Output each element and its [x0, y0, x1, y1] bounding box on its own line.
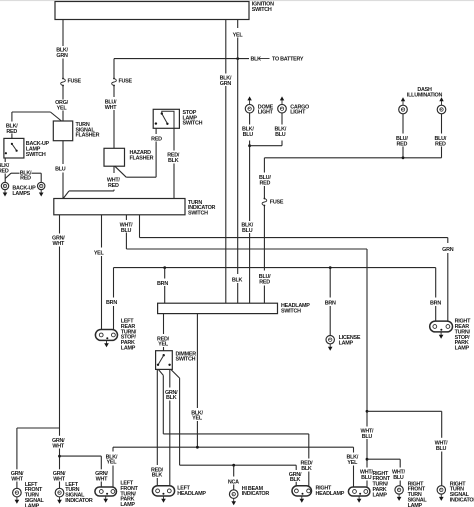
right front turn/park lamp: [348, 487, 370, 496]
svg-text:SWITCH: SWITCH: [252, 7, 272, 13]
left rear turn/stop/park lamp: [95, 330, 117, 341]
wire GRN/WHT branch to left front turn lamp: [17, 428, 60, 488]
label back-up lamp switch: [26, 141, 50, 158]
junction dot hi beam: [232, 464, 235, 467]
svg-text:GRN: GRN: [220, 81, 232, 87]
label BLK/GRN center: [220, 75, 232, 86]
svg-text:LAMP: LAMP: [339, 340, 354, 346]
label BLK/BLU cargo: [275, 126, 287, 137]
label turn signal flasher: [76, 122, 100, 139]
label WHT/RED: [107, 177, 121, 188]
label right turn signal indicator: [450, 481, 474, 503]
label RED/BLK right: [300, 461, 313, 472]
junction dot BRN headlamp switch: [163, 266, 166, 269]
wire WHT/RED (hazard to turn indicator switch): [63, 166, 114, 198]
svg-text:FUSE: FUSE: [119, 79, 133, 85]
wire GRN (to right rear lamp): [140, 215, 448, 321]
label dimmer switch: [176, 351, 197, 362]
label GRN/WHT front lamp: [11, 471, 24, 482]
label right headlamp: [316, 486, 345, 497]
wire GRN/BLK to left headlamp: [169, 369, 171, 485]
svg-text:FLASHER: FLASHER: [130, 156, 154, 162]
wire WHT/BLU to right turn indicator: [367, 411, 442, 485]
label dome light: [258, 104, 274, 115]
label right front turn/park lamp: [373, 471, 391, 499]
svg-text:LAMPS: LAMPS: [12, 191, 30, 197]
svg-text:LAMP: LAMP: [373, 492, 388, 498]
svg-text:BLU: BLU: [243, 132, 254, 138]
junction dot dome/cargo: [248, 144, 251, 147]
ground hi beam indicator: [231, 498, 236, 505]
svg-text:YEL: YEL: [57, 106, 68, 112]
ground right turn indicator: [439, 494, 444, 501]
svg-text:BRN: BRN: [106, 300, 117, 306]
dash lamp 2: [437, 105, 446, 114]
svg-text:BLK: BLK: [290, 477, 301, 483]
label cargo light: [290, 104, 309, 115]
svg-text:RED: RED: [259, 181, 270, 187]
label RED/YEL: [157, 336, 170, 347]
label headlamp switch: [281, 303, 310, 314]
svg-text:BLK: BLK: [301, 466, 312, 472]
label BLK/BLU dome lower: [241, 223, 253, 234]
label BLK/RED lamp1: [0, 163, 10, 174]
wire BLK/YEL (headlamp switch to park bus): [196, 314, 198, 448]
svg-text:YEL: YEL: [192, 416, 203, 422]
svg-text:FUSE: FUSE: [68, 79, 82, 85]
svg-text:RED: RED: [396, 141, 407, 147]
svg-text:BRN: BRN: [157, 281, 168, 287]
right front turn signal lamp: [395, 486, 403, 494]
wire RED/BLK to left headlamp: [156, 369, 158, 485]
label license lamp: [339, 335, 361, 346]
svg-text:SWITCH: SWITCH: [176, 357, 196, 363]
label GRN/WHT indicator: [53, 471, 66, 482]
label BLK — TO BATTERY: [251, 57, 304, 63]
label hazard flasher: [130, 150, 154, 161]
wire BLU/RED (dash bus to headlamp switch): [263, 158, 265, 303]
fuse F2: [112, 78, 117, 87]
wire BRN to left rear lamp: [113, 268, 115, 330]
label RED: [151, 136, 162, 142]
dash lamp 1 feed arrow: [401, 97, 405, 105]
hi beam indicator: [229, 490, 238, 499]
junction dot BRN license: [329, 266, 332, 269]
back-up lamp switch: [4, 138, 24, 158]
ground left turn indicator: [57, 497, 62, 504]
svg-text:LIGHT: LIGHT: [258, 110, 274, 116]
svg-text:BLK: BLK: [152, 473, 163, 479]
fuse F1: [61, 78, 66, 87]
svg-text:BLK: BLK: [232, 278, 243, 284]
wire RED/YEL (to dimmer switch): [163, 314, 165, 351]
svg-text:RED: RED: [20, 176, 31, 182]
svg-text:SWITCH: SWITCH: [26, 152, 46, 158]
label left front turn/park lamp: [120, 481, 138, 507]
wire BLK/GRN from ignition (left): [62, 20, 64, 122]
svg-text:RED: RED: [6, 129, 17, 135]
cargo light feed arrow: [280, 96, 284, 104]
wire BLK/YEL park line: [113, 446, 354, 448]
wire hazard to stop lamp switch: [115, 128, 156, 177]
svg-text:SWITCH: SWITCH: [183, 121, 203, 127]
back-up lamp right: [38, 182, 45, 189]
label BLU/RED lower: [259, 274, 271, 285]
wire BRN to license lamp: [329, 268, 331, 336]
label BRN license: [325, 300, 336, 306]
svg-text:YEL: YEL: [233, 32, 244, 38]
cargo light: [278, 104, 287, 113]
label right rear lamp: [455, 319, 471, 352]
dome light feed arrow: [247, 96, 251, 104]
left turn signal indicator: [55, 488, 64, 497]
label left front turn signal lamp: [25, 482, 45, 507]
wire RED/BLK to right headlamp: [158, 369, 308, 486]
wire BLU/RED dash 1: [402, 114, 404, 158]
svg-text:INDICATOR: INDICATOR: [450, 498, 474, 504]
svg-text:LAMP: LAMP: [455, 346, 470, 352]
label BLK: [232, 278, 243, 284]
svg-text:BLU: BLU: [393, 475, 404, 481]
svg-text:BLU: BLU: [436, 446, 447, 452]
dash lamp 2 feed arrow: [439, 97, 443, 105]
svg-text:RED: RED: [259, 279, 270, 285]
label BLK/BLU dome upper: [242, 126, 254, 137]
turn indicator switch: [54, 199, 185, 215]
stop lamp switch: [153, 109, 179, 128]
label BRN center: [157, 281, 168, 287]
label hi beam indicator: [242, 486, 270, 497]
svg-text:LIGHT: LIGHT: [290, 110, 306, 116]
left front turn/park lamp: [95, 487, 117, 496]
label WHT/BLU right indicator: [435, 440, 449, 451]
label GRN/WHT mid: [52, 438, 65, 449]
svg-text:LAMP: LAMP: [408, 503, 423, 507]
wire BLU/WHT fuse branch: [113, 59, 115, 149]
wire dash illumination bus: [264, 157, 441, 159]
svg-text:TO BATTERY: TO BATTERY: [272, 57, 304, 63]
label dash illumination: [407, 87, 443, 98]
wire GRN/WHT branch to left park lamp: [60, 456, 102, 487]
label WHT/BLU top: [120, 223, 134, 234]
wire BRN bus: [114, 267, 436, 269]
wire BLK to battery: [114, 58, 249, 60]
wire BLK/RED to back-up lamps: [5, 158, 41, 182]
wire YEL/BLK (ignition to battery line to headlamp switch): [237, 20, 239, 304]
svg-text:NCA: NCA: [228, 479, 239, 485]
label BRN right: [430, 300, 441, 306]
wire RED/BLK (stop switch to turn indicator switch): [173, 128, 175, 198]
wire BLK/RED feed to back-up lamp switch: [12, 112, 62, 138]
svg-text:FLASHER: FLASHER: [76, 133, 100, 139]
wire BLU (flasher to turn indicator switch): [62, 141, 64, 199]
svg-text:RED: RED: [108, 183, 119, 189]
svg-text:WHT: WHT: [53, 477, 65, 483]
label NCA: [228, 479, 239, 485]
svg-text:WHT: WHT: [105, 105, 117, 111]
junction dot BLK/YEL: [196, 446, 199, 449]
wire BLK/BLU cargo: [250, 113, 282, 146]
ground back-up lamp right: [39, 190, 44, 197]
svg-text:LAMP: LAMP: [25, 503, 40, 507]
label GRN/BLK right: [289, 472, 302, 483]
wire GRN/WHT trunk: [59, 215, 61, 489]
label left headlamp: [177, 486, 206, 497]
right rear turn/stop/park lamp: [430, 321, 453, 332]
label BLK/YEL center: [191, 410, 203, 421]
label stop lamp switch: [183, 110, 203, 127]
svg-text:WHT: WHT: [53, 241, 65, 247]
wire BLK/YEL to right park lamp: [353, 447, 355, 487]
svg-text:YEL: YEL: [347, 460, 358, 466]
headlamp switch: [158, 303, 278, 313]
junction dot dash bus: [402, 156, 405, 159]
label WHT/BLU right front: [392, 470, 406, 481]
label BLK/RED lamp2: [20, 170, 32, 181]
label GRN/WHT top: [52, 236, 65, 247]
hazard flasher: [104, 148, 125, 166]
dimmer switch contacts: [157, 354, 171, 366]
svg-text:GRN: GRN: [56, 53, 68, 59]
label right front turn signal lamp: [408, 481, 428, 507]
label BLU: [55, 167, 66, 173]
left front turn signal lamp: [13, 488, 22, 497]
label GRN/WHT park lamp: [95, 471, 108, 482]
svg-text:WHT: WHT: [11, 477, 23, 483]
ground left rear lamp: [104, 340, 109, 347]
svg-text:SWITCH: SWITCH: [281, 309, 301, 315]
label GRN: [442, 247, 454, 253]
svg-text:WHT: WHT: [96, 477, 108, 483]
label BLU/RED upper: [259, 175, 271, 186]
junction dot GRN/WHT: [58, 455, 61, 458]
wire YEL (to left rear lamp): [101, 215, 103, 330]
label WHT/BLU mid: [361, 428, 375, 439]
label ORG/YEL: [55, 100, 69, 111]
ground right rear lamp: [439, 332, 444, 339]
svg-text:YEL: YEL: [158, 342, 169, 348]
svg-text:BRN: BRN: [325, 300, 336, 306]
ground right headlamp: [300, 496, 305, 503]
label BLK/GRN: [56, 48, 68, 59]
svg-text:RED: RED: [151, 136, 162, 142]
svg-text:BLU: BLU: [362, 434, 373, 440]
ground right front park lamp: [357, 496, 362, 503]
label ignition switch: [252, 1, 274, 12]
wire GRN/BLK to right headlamp: [171, 369, 296, 486]
label back-up lamps: [12, 186, 36, 197]
right headlamp: [292, 486, 312, 496]
svg-text:BRN: BRN: [430, 300, 441, 306]
ground back-up lamp left: [3, 190, 8, 197]
label BLU/RED dash 2: [435, 136, 447, 147]
label BLU/RED dash 1: [396, 136, 408, 147]
junction dot WHT/BLU upper: [366, 410, 369, 413]
svg-text:YEL: YEL: [94, 251, 105, 257]
ignition switch: [55, 2, 249, 20]
svg-text:HEADLAMP: HEADLAMP: [177, 491, 206, 497]
svg-text:INDICATOR: INDICATOR: [65, 498, 93, 504]
junction dot battery/YEL: [236, 57, 239, 60]
svg-text:BLU: BLU: [55, 167, 66, 173]
svg-text:BLU: BLU: [275, 132, 286, 138]
label RED/BLK: [167, 153, 180, 164]
dash lamp 1: [399, 105, 408, 114]
ground left front park lamp: [103, 496, 108, 503]
wire BLK/BLU dome: [249, 113, 251, 303]
dimmer switch: [156, 351, 173, 370]
svg-text:BLK: BLK: [251, 57, 262, 63]
svg-text:RED: RED: [435, 141, 446, 147]
wire WHT/BLU (to right side): [126, 215, 367, 487]
license lamp: [326, 336, 334, 344]
svg-text:INDICATOR: INDICATOR: [242, 491, 270, 497]
svg-text:RED: RED: [0, 169, 9, 175]
ground right front turn lamp: [397, 494, 402, 501]
turn signal flasher: [53, 121, 72, 141]
ground left headlamp: [161, 496, 166, 503]
svg-text:HEADLAMP: HEADLAMP: [316, 491, 345, 497]
dome light: [245, 104, 254, 113]
ground license lamp: [328, 344, 333, 351]
svg-text:LAMP: LAMP: [120, 502, 135, 507]
ground left front turn lamp: [15, 497, 20, 504]
svg-text:YEL: YEL: [107, 460, 118, 466]
label turn indicator switch: [188, 200, 216, 217]
stop lamp switch contacts: [155, 111, 174, 128]
left headlamp: [152, 486, 174, 496]
wire WHT/BLU to right front turn lamp: [367, 459, 400, 485]
label WHT/BLU at park lamp: [360, 470, 374, 481]
svg-text:WHT: WHT: [52, 444, 64, 450]
label BLK/YEL left: [106, 454, 118, 465]
svg-text:BLU: BLU: [361, 475, 372, 481]
label fuse F1: [68, 79, 82, 85]
right turn signal indicator: [437, 486, 445, 494]
wire BLK/YEL to left park lamp: [112, 447, 114, 487]
label BLU/WHT: [105, 99, 118, 110]
label YEL: [233, 32, 244, 38]
svg-text:SWITCH: SWITCH: [188, 211, 208, 217]
wire NCA to hi beam indicator: [233, 465, 235, 490]
wire BRN to headlamp switch: [164, 268, 166, 304]
label left rear lamp: [121, 319, 137, 352]
label GRN/BLK left: [165, 390, 178, 401]
wire BLK/GRN center (ignition to headlamp switch): [225, 20, 227, 304]
svg-text:BLU: BLU: [242, 228, 253, 234]
svg-text:BLU: BLU: [121, 228, 132, 234]
label BRN left: [106, 300, 117, 306]
label YEL lower: [94, 251, 105, 257]
label left turn signal indicator: [65, 482, 93, 504]
svg-text:ILLUMINATION: ILLUMINATION: [407, 93, 443, 99]
wire BLU/RED dash 2: [441, 114, 443, 158]
svg-text:BLK: BLK: [168, 158, 179, 164]
label fuse F2: [119, 79, 133, 85]
label BLK/RED upper: [6, 123, 18, 134]
back-up lamp switch contacts: [5, 143, 18, 155]
svg-text:LAMP: LAMP: [121, 346, 136, 352]
svg-text:FUSE: FUSE: [270, 200, 284, 206]
label RED/BLK left: [151, 467, 164, 478]
svg-text:GRN: GRN: [442, 247, 454, 253]
label fuse F3: [270, 200, 284, 206]
label BLK/YEL right: [347, 455, 359, 466]
scan edge smear top: [0, 0, 474, 1]
junction dot WHT/BLU lower: [366, 458, 369, 461]
wire BRN to right rear lamp: [435, 268, 437, 322]
fuse F3: [262, 198, 267, 207]
svg-text:BLK: BLK: [166, 395, 177, 401]
back-up lamp left: [1, 182, 8, 189]
